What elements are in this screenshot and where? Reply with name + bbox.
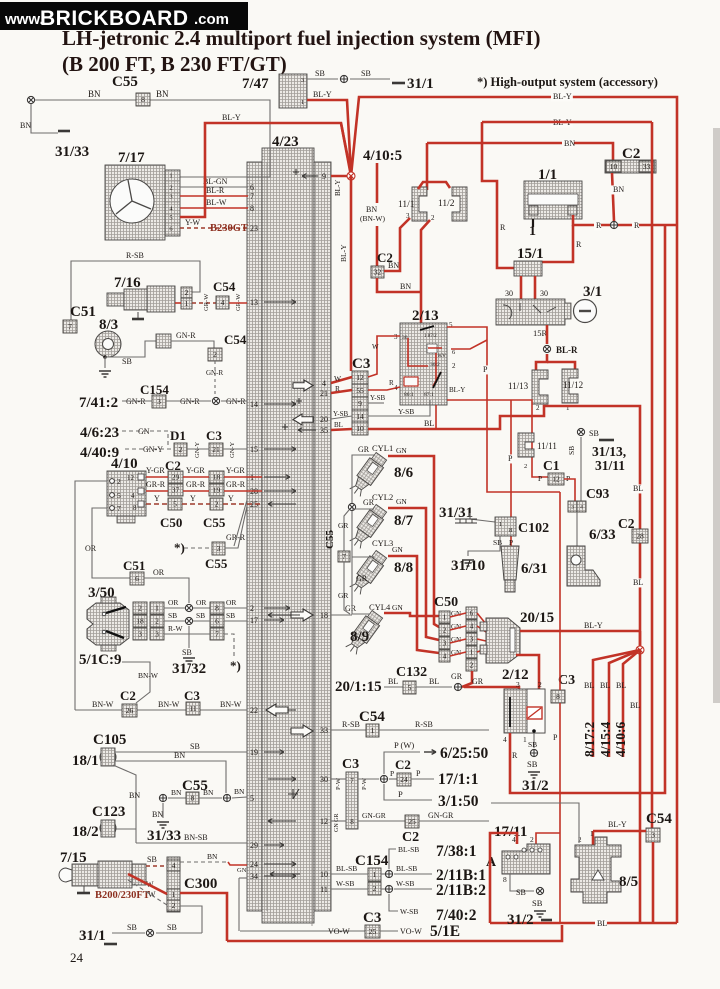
svg-text:BN: BN bbox=[171, 788, 182, 797]
svg-text:2: 2 bbox=[530, 835, 534, 844]
svg-text:Y: Y bbox=[228, 494, 234, 503]
svg-text:30:2: 30:2 bbox=[430, 362, 440, 368]
svg-text:BN: BN bbox=[207, 852, 218, 861]
svg-text:87:1: 87:1 bbox=[424, 392, 434, 398]
svg-text:4: 4 bbox=[503, 735, 507, 744]
svg-text:B200/230FT: B200/230FT bbox=[95, 890, 150, 901]
svg-text:1: 1 bbox=[301, 99, 304, 106]
svg-text:C154: C154 bbox=[355, 853, 389, 869]
svg-text:31/33: 31/33 bbox=[55, 144, 89, 160]
svg-text:BL: BL bbox=[429, 677, 439, 686]
svg-text:BL-R: BL-R bbox=[206, 186, 225, 195]
svg-text:12: 12 bbox=[320, 817, 328, 826]
svg-text:2: 2 bbox=[172, 901, 176, 910]
svg-text:31/11: 31/11 bbox=[595, 458, 625, 473]
svg-text:20: 20 bbox=[320, 415, 328, 424]
svg-text:C3: C3 bbox=[352, 356, 370, 372]
svg-text:GN-R: GN-R bbox=[176, 331, 196, 340]
svg-text:5: 5 bbox=[173, 500, 177, 509]
svg-text:2: 2 bbox=[155, 617, 159, 626]
svg-text:P-W: P-W bbox=[361, 777, 368, 790]
svg-text:CYL1: CYL1 bbox=[372, 443, 393, 453]
svg-text:8/17:2: 8/17:2 bbox=[582, 722, 597, 757]
svg-text:9: 9 bbox=[322, 172, 326, 181]
svg-text:SB: SB bbox=[122, 357, 132, 366]
svg-text:BL-SB: BL-SB bbox=[336, 864, 357, 873]
svg-text:1: 1 bbox=[373, 870, 377, 879]
svg-text:BL-Y: BL-Y bbox=[553, 92, 572, 101]
svg-text:Y-SB: Y-SB bbox=[333, 410, 349, 418]
svg-text:P: P bbox=[553, 733, 558, 742]
svg-text:2: 2 bbox=[117, 477, 121, 486]
svg-text:P: P bbox=[508, 454, 513, 463]
svg-text:W-SB: W-SB bbox=[396, 879, 414, 888]
svg-text:4/10:6: 4/10:6 bbox=[613, 722, 628, 757]
svg-text:P: P bbox=[483, 365, 488, 374]
svg-text:1: 1 bbox=[371, 726, 375, 735]
svg-text:11: 11 bbox=[320, 885, 328, 894]
svg-text:3: 3 bbox=[217, 544, 221, 553]
svg-text:*) High-output system (accesso: *) High-output system (accessory) bbox=[477, 75, 658, 89]
svg-text:GR: GR bbox=[472, 677, 484, 686]
svg-text:BL-Y: BL-Y bbox=[222, 113, 241, 122]
svg-text:31/32: 31/32 bbox=[172, 661, 206, 677]
svg-text:2: 2 bbox=[431, 214, 435, 222]
svg-text:2: 2 bbox=[452, 362, 456, 370]
svg-text:2: 2 bbox=[538, 680, 542, 689]
svg-text:BN: BN bbox=[388, 261, 399, 270]
svg-text:SB: SB bbox=[567, 446, 576, 455]
svg-text:33: 33 bbox=[643, 162, 651, 171]
svg-text:BL-SB: BL-SB bbox=[396, 864, 417, 873]
svg-text:6/25:50: 6/25:50 bbox=[440, 745, 488, 762]
svg-text:BN: BN bbox=[20, 121, 31, 130]
svg-text:BN-W: BN-W bbox=[138, 671, 159, 680]
svg-text:GR-R: GR-R bbox=[186, 480, 206, 489]
svg-text:GR: GR bbox=[358, 445, 370, 454]
svg-text:SB: SB bbox=[168, 611, 177, 620]
svg-text:15/1: 15/1 bbox=[517, 246, 544, 262]
svg-text:C55: C55 bbox=[205, 556, 228, 571]
svg-text:C54: C54 bbox=[224, 332, 247, 347]
svg-text:5/1C:9: 5/1C:9 bbox=[79, 652, 122, 668]
svg-text:C51: C51 bbox=[70, 304, 96, 320]
svg-text:1: 1 bbox=[172, 890, 176, 899]
svg-text:1: 1 bbox=[523, 735, 527, 744]
svg-text:18: 18 bbox=[136, 617, 144, 626]
svg-text:7/17: 7/17 bbox=[118, 150, 145, 166]
svg-text:8: 8 bbox=[250, 204, 254, 213]
svg-text:31/10: 31/10 bbox=[451, 558, 485, 574]
svg-text:GN GR: GN GR bbox=[334, 813, 340, 832]
svg-text:2: 2 bbox=[524, 463, 527, 470]
svg-text:C50: C50 bbox=[434, 595, 458, 610]
svg-text:Y-SB: Y-SB bbox=[398, 407, 414, 416]
svg-text:C54: C54 bbox=[359, 709, 385, 725]
svg-text:BL: BL bbox=[616, 681, 626, 690]
svg-text:LH-jetronic 2.4 multiport fuel: LH-jetronic 2.4 multiport fuel injection… bbox=[62, 26, 540, 50]
svg-text:2: 2 bbox=[470, 662, 474, 670]
svg-text:GR-R: GR-R bbox=[146, 480, 166, 489]
svg-text:GR: GR bbox=[356, 574, 368, 583]
svg-text:2: 2 bbox=[179, 445, 183, 454]
svg-text:P: P bbox=[398, 789, 403, 799]
svg-text:2: 2 bbox=[213, 350, 217, 359]
svg-text:R: R bbox=[500, 223, 506, 232]
svg-text:GN-Y: GN-Y bbox=[229, 441, 236, 458]
svg-text:3: 3 bbox=[394, 333, 398, 341]
svg-text:11/13: 11/13 bbox=[508, 381, 529, 391]
svg-text:Y-GR: Y-GR bbox=[226, 466, 245, 475]
svg-text:1: 1 bbox=[590, 830, 594, 838]
svg-text:C55: C55 bbox=[324, 530, 336, 549]
svg-text:BN: BN bbox=[234, 787, 245, 796]
svg-text:26: 26 bbox=[126, 706, 134, 715]
svg-text:BL: BL bbox=[597, 919, 607, 928]
svg-text:5: 5 bbox=[169, 215, 172, 222]
svg-text:GR: GR bbox=[338, 591, 348, 600]
svg-text:Y: Y bbox=[190, 494, 196, 503]
svg-text:C2: C2 bbox=[402, 830, 419, 845]
svg-text:1: 1 bbox=[155, 604, 159, 613]
svg-text:8/5: 8/5 bbox=[619, 874, 638, 890]
svg-text:22: 22 bbox=[250, 706, 258, 715]
svg-text:31/1: 31/1 bbox=[407, 76, 434, 92]
svg-text:BL-R: BL-R bbox=[556, 345, 578, 355]
svg-text:7/40:2: 7/40:2 bbox=[436, 907, 477, 924]
svg-text:4: 4 bbox=[221, 298, 225, 307]
svg-text:11/11: 11/11 bbox=[537, 441, 557, 451]
svg-text:SB: SB bbox=[532, 898, 543, 908]
svg-text:Y-W: Y-W bbox=[185, 218, 201, 227]
svg-text:3: 3 bbox=[169, 194, 172, 201]
svg-text:R-W: R-W bbox=[168, 624, 184, 633]
svg-text:6: 6 bbox=[215, 617, 219, 626]
svg-text:3/1: 3/1 bbox=[583, 284, 602, 300]
svg-text:R: R bbox=[596, 221, 602, 230]
svg-text:86:1: 86:1 bbox=[404, 392, 414, 398]
svg-text:BN: BN bbox=[613, 185, 624, 194]
svg-text:*): *) bbox=[230, 658, 241, 673]
svg-text:1 87/2: 1 87/2 bbox=[424, 334, 437, 339]
svg-text:OR: OR bbox=[85, 544, 97, 553]
svg-text:8: 8 bbox=[503, 875, 507, 884]
svg-text:R: R bbox=[634, 221, 640, 230]
svg-text:2: 2 bbox=[185, 288, 189, 297]
svg-text:3: 3 bbox=[157, 397, 161, 406]
svg-text:BN: BN bbox=[174, 751, 185, 760]
svg-text:3: 3 bbox=[571, 504, 574, 510]
svg-text:W-SB: W-SB bbox=[336, 879, 354, 888]
svg-text:BN-SB: BN-SB bbox=[184, 833, 208, 842]
svg-text:C51: C51 bbox=[123, 558, 145, 573]
svg-text:31/1: 31/1 bbox=[79, 928, 106, 944]
svg-text:15R: 15R bbox=[533, 328, 548, 338]
svg-text:3: 3 bbox=[470, 636, 474, 644]
svg-text:8: 8 bbox=[215, 604, 219, 613]
svg-text:2: 2 bbox=[536, 404, 540, 412]
svg-text:55: 55 bbox=[356, 386, 364, 395]
svg-text:9: 9 bbox=[358, 399, 362, 408]
svg-text:GN: GN bbox=[396, 497, 407, 506]
svg-text:37: 37 bbox=[172, 486, 180, 495]
svg-text:31/13,: 31/13, bbox=[592, 444, 626, 459]
svg-text:10: 10 bbox=[356, 424, 364, 433]
svg-text:C3: C3 bbox=[184, 688, 200, 703]
svg-text:2/13: 2/13 bbox=[412, 308, 439, 324]
svg-text:4: 4 bbox=[580, 504, 583, 510]
svg-text:BN: BN bbox=[203, 788, 214, 797]
svg-text:P: P bbox=[390, 769, 394, 778]
svg-text:B230GT: B230GT bbox=[210, 223, 248, 234]
svg-text:18/2: 18/2 bbox=[72, 824, 99, 840]
svg-text:12: 12 bbox=[127, 474, 135, 482]
svg-text:SB: SB bbox=[527, 759, 538, 769]
svg-text:3/1:50: 3/1:50 bbox=[438, 793, 479, 810]
svg-text:4: 4 bbox=[443, 653, 447, 661]
svg-text:P (W): P (W) bbox=[394, 740, 414, 750]
svg-text:SB: SB bbox=[528, 740, 537, 749]
svg-text:C123: C123 bbox=[92, 804, 125, 820]
svg-text:OR: OR bbox=[153, 568, 165, 577]
svg-text:7: 7 bbox=[117, 504, 121, 513]
svg-text:GN-R: GN-R bbox=[206, 369, 223, 377]
svg-text:C300: C300 bbox=[184, 876, 217, 892]
svg-text:GN: GN bbox=[392, 545, 403, 554]
svg-text:R-SB: R-SB bbox=[342, 720, 360, 729]
svg-text:7/47: 7/47 bbox=[242, 76, 269, 92]
svg-text:4/15:4: 4/15:4 bbox=[598, 722, 613, 757]
svg-text:29: 29 bbox=[250, 841, 258, 850]
svg-text:GR-R: GR-R bbox=[226, 480, 246, 489]
svg-text:W: W bbox=[372, 343, 379, 351]
svg-text:R: R bbox=[389, 379, 394, 387]
svg-text:SB: SB bbox=[190, 742, 200, 751]
svg-text:7/38:1: 7/38:1 bbox=[436, 843, 476, 860]
svg-text:1: 1 bbox=[499, 521, 502, 528]
svg-text:C93: C93 bbox=[586, 486, 609, 501]
svg-text:C2: C2 bbox=[395, 757, 411, 772]
svg-text:OR: OR bbox=[226, 598, 236, 607]
svg-text:GN: GN bbox=[396, 446, 407, 455]
svg-text:8/6: 8/6 bbox=[394, 465, 414, 481]
svg-text:BL: BL bbox=[424, 419, 434, 428]
svg-text:www.: www. bbox=[4, 11, 44, 28]
svg-text:1: 1 bbox=[470, 649, 474, 657]
svg-text:20/15: 20/15 bbox=[520, 610, 554, 626]
svg-text:BN: BN bbox=[366, 205, 377, 214]
svg-text:BL: BL bbox=[334, 421, 343, 429]
svg-text:11/2: 11/2 bbox=[438, 199, 455, 209]
svg-text:KV: KV bbox=[438, 353, 446, 359]
svg-text:6/33: 6/33 bbox=[589, 527, 616, 543]
svg-text:20/1:15: 20/1:15 bbox=[335, 679, 382, 695]
svg-text:BL-Y: BL-Y bbox=[584, 621, 603, 630]
svg-text:BL-SB: BL-SB bbox=[398, 845, 419, 854]
svg-text:C54: C54 bbox=[213, 279, 236, 294]
svg-text:8/9: 8/9 bbox=[350, 629, 369, 645]
svg-text:C2: C2 bbox=[120, 688, 136, 703]
svg-text:GN-GR: GN-GR bbox=[428, 811, 454, 820]
svg-text:25: 25 bbox=[408, 817, 416, 826]
svg-text:C102: C102 bbox=[518, 521, 549, 536]
svg-text:21: 21 bbox=[320, 389, 328, 398]
svg-text:28: 28 bbox=[636, 532, 644, 541]
svg-text:35: 35 bbox=[320, 426, 328, 435]
svg-text:BN: BN bbox=[152, 810, 163, 819]
svg-text:14: 14 bbox=[356, 412, 364, 421]
svg-text:17/1:1: 17/1:1 bbox=[438, 771, 478, 788]
svg-text:8: 8 bbox=[556, 692, 560, 701]
svg-text:D1: D1 bbox=[170, 428, 186, 443]
svg-text:4: 4 bbox=[512, 835, 516, 844]
svg-text:BN: BN bbox=[564, 139, 575, 148]
svg-text:4/10: 4/10 bbox=[111, 456, 138, 472]
svg-text:Y: Y bbox=[154, 494, 160, 503]
svg-text:2: 2 bbox=[215, 500, 219, 509]
svg-text:25: 25 bbox=[369, 927, 377, 936]
svg-text:4/23: 4/23 bbox=[272, 134, 299, 150]
svg-text:8: 8 bbox=[191, 794, 195, 803]
svg-text:GR-W: GR-W bbox=[235, 293, 242, 311]
svg-text:31/2: 31/2 bbox=[522, 778, 549, 794]
svg-text:BN-W: BN-W bbox=[158, 700, 180, 709]
svg-text:6: 6 bbox=[135, 574, 139, 583]
svg-text:7: 7 bbox=[215, 630, 219, 639]
svg-text:C50: C50 bbox=[160, 515, 182, 530]
svg-text:SB: SB bbox=[147, 855, 157, 864]
svg-text:30: 30 bbox=[540, 289, 548, 298]
svg-text:C3: C3 bbox=[206, 428, 222, 443]
svg-text:11/1: 11/1 bbox=[398, 200, 415, 210]
svg-text:C3: C3 bbox=[342, 757, 359, 772]
svg-text:12: 12 bbox=[552, 475, 560, 484]
svg-text:18: 18 bbox=[213, 473, 221, 482]
svg-text:GR: GR bbox=[363, 498, 375, 507]
svg-text:C132: C132 bbox=[396, 665, 427, 680]
svg-text:4: 4 bbox=[172, 861, 176, 870]
svg-text:W-SB: W-SB bbox=[400, 907, 418, 916]
svg-text:GR: GR bbox=[338, 521, 348, 530]
svg-text:BN: BN bbox=[156, 89, 169, 99]
svg-text:8: 8 bbox=[350, 818, 354, 826]
svg-text:23: 23 bbox=[250, 224, 258, 233]
svg-text:3: 3 bbox=[443, 640, 447, 648]
svg-text:4/10:5: 4/10:5 bbox=[363, 148, 402, 164]
svg-text:2/11B:2: 2/11B:2 bbox=[436, 882, 486, 899]
svg-text:6: 6 bbox=[470, 610, 474, 618]
svg-text:2: 2 bbox=[169, 185, 172, 192]
svg-text:5: 5 bbox=[408, 683, 412, 692]
svg-text:3: 3 bbox=[138, 630, 142, 639]
svg-text:24: 24 bbox=[250, 860, 258, 869]
svg-text:4/6:23: 4/6:23 bbox=[80, 425, 119, 441]
svg-text:R: R bbox=[576, 240, 582, 249]
svg-text:13: 13 bbox=[250, 298, 258, 307]
svg-text:31/33: 31/33 bbox=[147, 828, 181, 844]
svg-text:SB: SB bbox=[516, 888, 526, 897]
svg-text:BL-Y: BL-Y bbox=[334, 180, 342, 196]
svg-text:(B 200 FT, B 230 FT/GT): (B 200 FT, B 230 FT/GT) bbox=[62, 52, 287, 76]
svg-text:GN-GR: GN-GR bbox=[362, 811, 386, 820]
svg-text:4: 4 bbox=[470, 623, 474, 631]
svg-text:2: 2 bbox=[138, 604, 142, 613]
svg-text:11/12: 11/12 bbox=[563, 380, 583, 390]
svg-text:6/31: 6/31 bbox=[521, 561, 548, 577]
svg-text:GR-W: GR-W bbox=[203, 293, 210, 311]
svg-text:GN: GN bbox=[392, 603, 403, 612]
svg-text:VO-W: VO-W bbox=[400, 927, 422, 936]
svg-text:BL: BL bbox=[388, 677, 398, 686]
svg-text:BL: BL bbox=[584, 681, 594, 690]
svg-text:2: 2 bbox=[373, 884, 377, 893]
svg-text:(BN-W): (BN-W) bbox=[360, 214, 385, 223]
svg-text:P: P bbox=[538, 474, 542, 483]
svg-text:C54: C54 bbox=[646, 811, 672, 827]
svg-text:6: 6 bbox=[250, 183, 254, 192]
svg-text:Y-GR: Y-GR bbox=[186, 466, 205, 475]
svg-text:8: 8 bbox=[133, 504, 137, 512]
svg-text:1: 1 bbox=[169, 173, 172, 180]
svg-text:31/2: 31/2 bbox=[507, 912, 534, 928]
svg-text:8/7: 8/7 bbox=[394, 513, 414, 529]
svg-text:W: W bbox=[334, 374, 342, 383]
svg-text:1: 1 bbox=[443, 614, 447, 622]
svg-text:12: 12 bbox=[356, 373, 364, 382]
svg-text:BL-Y: BL-Y bbox=[339, 244, 348, 262]
svg-text:P: P bbox=[416, 769, 421, 778]
svg-text:BL: BL bbox=[633, 578, 643, 587]
svg-text:2: 2 bbox=[250, 604, 254, 613]
svg-text:BL-W: BL-W bbox=[206, 198, 227, 207]
svg-text:R: R bbox=[335, 384, 340, 393]
svg-text:29: 29 bbox=[172, 473, 180, 482]
svg-text:8/8: 8/8 bbox=[394, 560, 413, 576]
svg-text:24: 24 bbox=[70, 950, 84, 965]
svg-text:C3: C3 bbox=[363, 910, 381, 926]
svg-text:C1: C1 bbox=[543, 458, 560, 473]
svg-text:CYL3: CYL3 bbox=[372, 538, 393, 548]
svg-text:C105: C105 bbox=[93, 732, 126, 748]
svg-text:3: 3 bbox=[651, 831, 655, 840]
svg-text:3: 3 bbox=[516, 680, 520, 689]
svg-text:5: 5 bbox=[250, 794, 254, 803]
svg-text:4: 4 bbox=[322, 379, 326, 388]
svg-text:7: 7 bbox=[342, 552, 346, 561]
svg-text:R-SB: R-SB bbox=[126, 251, 144, 260]
svg-text:18: 18 bbox=[320, 611, 328, 620]
svg-text:BL-Y: BL-Y bbox=[608, 820, 627, 829]
svg-text:BN: BN bbox=[400, 282, 411, 291]
svg-text:C55: C55 bbox=[112, 74, 138, 90]
svg-text:7: 7 bbox=[250, 192, 254, 201]
svg-text:BL-Y: BL-Y bbox=[449, 386, 465, 394]
svg-text:SB: SB bbox=[167, 923, 177, 932]
svg-text:11: 11 bbox=[189, 704, 196, 713]
svg-text:Y-SB: Y-SB bbox=[370, 394, 386, 402]
svg-text:*): *) bbox=[174, 540, 185, 555]
svg-text:7/41:2: 7/41:2 bbox=[79, 395, 118, 411]
svg-text:BL: BL bbox=[600, 681, 610, 690]
svg-text:8: 8 bbox=[509, 527, 512, 534]
svg-text:30: 30 bbox=[505, 289, 513, 298]
svg-text:BN: BN bbox=[129, 791, 140, 800]
svg-text:7: 7 bbox=[68, 322, 72, 331]
svg-text:19: 19 bbox=[250, 748, 258, 757]
svg-text:SB: SB bbox=[315, 69, 325, 78]
svg-text:17: 17 bbox=[250, 616, 258, 625]
svg-text:3: 3 bbox=[301, 77, 304, 84]
